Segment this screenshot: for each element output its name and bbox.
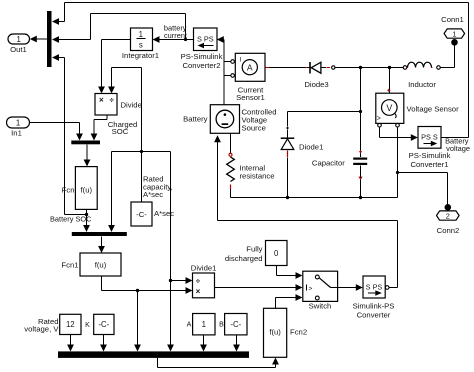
svg-text:Battery SOC: Battery SOC: [50, 214, 92, 223]
block Simulink-PS Converter: [353, 276, 395, 320]
wire rated capacity riser to Divide input 2: [108, 68, 143, 203]
svg-text:Battery: Battery: [183, 115, 208, 124]
svg-text:Divide: Divide: [121, 101, 142, 110]
svg-text:>: >: [309, 285, 313, 292]
svg-text:-C-: -C-: [230, 320, 241, 329]
wire Fcn1 branch down to Mux4: [134, 291, 141, 352]
wire battery-voltage into Mux input 1: [52, 3, 65, 25]
resistor internal resistance: [227, 153, 275, 189]
svg-text:Inductor: Inductor: [408, 80, 436, 89]
svg-text:I: I: [240, 56, 242, 63]
svg-text:f(u): f(u): [81, 186, 93, 195]
svg-text:×: ×: [196, 287, 201, 296]
port Out1: [8, 34, 30, 54]
mux Mux4: [58, 351, 249, 358]
wire capacitor net: [360, 68, 362, 198]
svg-text:S PS: S PS: [197, 35, 214, 44]
svg-text:Diode1: Diode1: [299, 142, 323, 151]
svg-text:2: 2: [446, 212, 450, 221]
diode D1: [281, 138, 324, 157]
svg-text:K: K: [85, 322, 90, 329]
block constant 12: [60, 314, 81, 334]
svg-text:÷: ÷: [110, 96, 115, 105]
annotation Rated capacity A*sec: [143, 175, 173, 200]
block Divide: [95, 94, 142, 116]
svg-text:resistance: resistance: [240, 171, 275, 180]
svg-text:A*sec: A*sec: [143, 190, 163, 199]
wire into PS-Simulink Converter2 input: [217, 36, 224, 104]
block Voltage Sensor: [376, 89, 459, 127]
wire Fcn1 output to Divide1 input 2: [102, 277, 193, 294]
svg-text:Divide1: Divide1: [191, 263, 217, 272]
block constant 1 A: [187, 314, 215, 335]
wire Mux2 to Fcn: [84, 145, 91, 167]
block Fcn1: [61, 253, 121, 276]
wire voltage sensor top: [389, 68, 391, 94]
wire rated capacity cross link: [108, 152, 170, 233]
annotation Charged SOC: [108, 120, 138, 136]
wire Simulink-PS Converter output to Battery signal input: [214, 135, 397, 289]
wire Divide1 output to Switch input 2: [215, 284, 303, 291]
svg-text:f(u): f(u): [95, 260, 107, 269]
block constant 0: [266, 241, 288, 266]
block Switch: [303, 271, 338, 311]
svg-text:In1: In1: [11, 128, 22, 137]
svg-text:Switch: Switch: [309, 302, 332, 311]
block Fcn: [62, 167, 98, 210]
mux Mux3: [72, 232, 127, 236]
wire rail branch to Conn2: [396, 171, 448, 205]
block PS-Simulink Converter2: [181, 28, 223, 70]
wire constant -C- B to Mux4: [233, 335, 240, 352]
wire In1 to Mux2: [30, 123, 83, 141]
wire rated capacity down branch to Mux4: [167, 152, 174, 352]
wire constant 12 to Mux4: [67, 335, 74, 352]
wire constant 1 to Mux4: [200, 335, 207, 352]
annotation Controlled Voltage Source: [242, 108, 277, 133]
svg-text:Diode3: Diode3: [304, 80, 328, 89]
svg-text:A: A: [247, 63, 253, 73]
svg-text:Converter2: Converter2: [182, 61, 220, 70]
svg-text:PS S: PS S: [421, 133, 438, 142]
annotation battery current: [164, 23, 187, 40]
wire Mux4 output to Fcn2: [158, 358, 279, 368]
svg-text:Converter1: Converter1: [410, 160, 448, 169]
svg-text:Fully: Fully: [246, 245, 262, 254]
svg-text:f(u): f(u): [269, 328, 281, 337]
svg-text:0: 0: [274, 249, 279, 258]
wire PS-Simulink Converter1 output: [441, 137, 469, 139]
wire Fcn2 output to Switch input 3: [276, 294, 303, 308]
svg-text:Converter: Converter: [357, 311, 391, 320]
svg-text:×: ×: [99, 95, 104, 104]
svg-text:Out1: Out1: [10, 45, 27, 54]
block Current Sensor1: [231, 53, 265, 102]
svg-text:A*sec: A*sec: [154, 209, 174, 218]
svg-text:SOC: SOC: [112, 127, 129, 136]
inductor L: [403, 62, 440, 89]
wire Integrator1 output to Divide: [98, 40, 130, 94]
svg-text:S PS: S PS: [366, 282, 383, 291]
capacitor C: [312, 150, 367, 179]
svg-text:1: 1: [16, 118, 20, 127]
annotation Rated voltage V: [24, 317, 59, 334]
block Fcn2: [264, 308, 308, 357]
svg-text:Simulink-PS: Simulink-PS: [353, 302, 395, 311]
wire Switch output to Simulink-PS Converter: [338, 284, 363, 291]
svg-text:A: A: [187, 322, 192, 329]
svg-text:PS-Simulink: PS-Simulink: [181, 52, 223, 61]
diode D3: [266, 62, 335, 89]
wire negative rail: [231, 127, 398, 200]
svg-text:12: 12: [66, 320, 75, 329]
wire PS-Simulink Converter2 to Integrator1: [153, 36, 194, 43]
svg-text:PS-Simulink: PS-Simulink: [409, 151, 451, 160]
svg-text:B: B: [219, 322, 224, 329]
wire diode1 net: [286, 110, 362, 198]
svg-text:Conn2: Conn2: [437, 226, 460, 235]
svg-text:1: 1: [17, 35, 21, 44]
svg-text:Source: Source: [242, 124, 266, 133]
svg-text:voltage, V: voltage, V: [24, 324, 59, 333]
wire battery-current branch (top link): [91, 14, 186, 40]
wire constant -C- to Mux4: [100, 335, 107, 352]
wire battery-current into Mux input 2: [52, 36, 91, 43]
svg-text:Fcn2: Fcn2: [290, 328, 307, 337]
svg-text:V: V: [386, 103, 392, 113]
block Integrator1: [122, 28, 159, 60]
wire main positive net: [265, 46, 455, 70]
block -C- rated capacity: [131, 202, 174, 226]
block Divide1: [191, 263, 217, 298]
block constant -C- K: [85, 314, 114, 334]
wire current sensor port stubs: [224, 62, 231, 76]
wire Fcn output to Mux3: [83, 210, 90, 233]
wire battery-voltage top net: [65, 3, 469, 138]
svg-text:current: current: [164, 31, 187, 40]
port Conn1: [441, 15, 464, 46]
svg-text:Voltage Sensor: Voltage Sensor: [407, 105, 460, 114]
svg-text:Capacitor: Capacitor: [312, 159, 345, 168]
wire voltage sensor to PS-Simulink Converter1: [380, 127, 418, 141]
mux Mux2: [71, 141, 100, 145]
port In1: [7, 117, 30, 137]
svg-text:Fcn1: Fcn1: [61, 261, 78, 270]
wire constant 0 to Switch input 1: [277, 266, 303, 279]
annotation Battery voltage: [445, 137, 470, 154]
svg-text:÷: ÷: [196, 276, 201, 285]
svg-text:s: s: [139, 41, 143, 50]
svg-text:voltage: voltage: [446, 144, 470, 153]
block Battery (controlled voltage source): [183, 105, 239, 134]
wire battery to internal resistance: [230, 134, 232, 198]
svg-text:Integrator1: Integrator1: [122, 51, 159, 60]
block constant -C- B: [219, 314, 247, 335]
mux Mux1: [47, 11, 52, 67]
svg-text:Conn1: Conn1: [441, 15, 464, 24]
wire Divide output (Charged SOC) to Mux2: [91, 115, 107, 141]
block PS-Simulink Converter1: [409, 127, 451, 169]
svg-text:1: 1: [139, 30, 143, 39]
svg-text:Sensor1: Sensor1: [236, 93, 265, 102]
svg-text:1: 1: [452, 30, 456, 39]
wire battery SOC riser to Mux input 3: [52, 54, 88, 216]
svg-text:discharged: discharged: [225, 254, 263, 263]
wire Mux3 to Fcn1: [98, 237, 105, 254]
annotation Fully discharged: [225, 245, 263, 263]
svg-text:1: 1: [202, 320, 206, 329]
wire rated capacity branch to Divide1 input 1: [169, 277, 193, 284]
svg-text:-C-: -C-: [136, 210, 147, 219]
svg-text:-C-: -C-: [98, 320, 109, 329]
svg-text:Fcn: Fcn: [62, 186, 75, 195]
svg-text:>: >: [377, 115, 381, 122]
annotation Battery SOC: [50, 214, 92, 223]
port Conn2: [437, 204, 460, 235]
wire Mux to Out1: [30, 36, 47, 43]
